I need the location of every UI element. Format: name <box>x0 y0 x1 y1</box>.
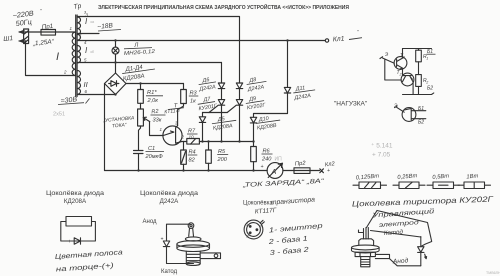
bridge rectifier Д1-Д4 diamond <box>105 73 127 95</box>
power symbol 0,5Вт <box>427 184 460 186</box>
diode КД208А package diode symbol <box>74 238 80 244</box>
resistor R1* <box>140 84 142 90</box>
svg-text:"НАГУЗКА": "НАГУЗКА" <box>334 101 368 108</box>
potentiometer R2 <box>138 109 144 126</box>
svg-text:200: 200 <box>217 157 228 163</box>
svg-text:2: 2 <box>63 70 67 75</box>
resistor R4 <box>183 142 185 151</box>
wire box bottom and corner <box>390 259 421 266</box>
svg-text:10: 10 <box>189 134 195 139</box>
plug hatch block <box>24 29 29 44</box>
svg-text:1к: 1к <box>190 99 196 105</box>
thyristor Д9 <box>227 100 243 142</box>
transistor Т КТ117Г unijunction <box>163 126 182 145</box>
КТ117 pin numerals <box>246 223 263 239</box>
svg-text:Катод: Катод <box>384 229 404 237</box>
wire mains top lead <box>19 31 76 33</box>
diode Д6 <box>218 83 224 100</box>
terminal Кл2 cross <box>310 169 323 173</box>
package КУ202Г stud <box>361 257 370 267</box>
diode Д8 <box>236 83 242 100</box>
wire gates junction line <box>203 112 228 114</box>
wire branch1 down <box>221 63 223 84</box>
node Э terminal dash (equiv circuit) <box>380 57 383 59</box>
package Д242А collar <box>185 237 201 241</box>
package Д242А stud <box>186 251 200 263</box>
diode Д11 <box>284 41 290 114</box>
svg-text:+: + <box>161 237 164 243</box>
label Д5 КД208А <box>211 115 237 132</box>
svg-text:КД208А: КД208А <box>64 198 87 205</box>
svg-text:Б2: Б2 <box>427 86 433 92</box>
diode КД208А package leads <box>61 222 96 242</box>
wire ammeter to fuse <box>283 170 294 172</box>
winding pin numbers <box>63 13 89 95</box>
resistor R6 <box>253 142 255 147</box>
svg-text:R1*: R1* <box>147 90 157 96</box>
wire bridge minus down <box>104 84 106 171</box>
plug Ш1 arrows <box>19 30 26 42</box>
diode КД208А package body <box>66 217 92 227</box>
label Д7 КУ201Г <box>197 95 219 112</box>
wire T1 collector up <box>402 49 404 58</box>
diode symbol Д242А pinout <box>163 241 169 247</box>
svg-text:ТМВ6ЛН: ТМВ6ЛН <box>486 271 500 275</box>
wire winding II bottom to bridge <box>78 94 116 96</box>
svg-text:Э: Э <box>394 104 398 110</box>
svg-text:Цоколёвка диода: Цоколёвка диода <box>140 190 199 197</box>
svg-text:Анод: Анод <box>392 256 409 265</box>
junction dots <box>114 39 116 41</box>
wire anode Д242А pinout <box>167 224 194 263</box>
svg-text:+: + <box>68 239 71 245</box>
svg-text:Б2: Б2 <box>418 120 424 126</box>
svg-text:Кл1: Кл1 <box>333 35 345 43</box>
thyristor Д7 <box>209 100 225 142</box>
svg-text:82: 82 <box>189 158 196 164</box>
ammeter А <box>267 163 283 179</box>
label ~220В 50Гц <box>12 8 42 28</box>
transistor Т2 <box>401 73 414 86</box>
transformer Тр core <box>76 15 77 97</box>
resistor R1 equiv <box>418 49 420 51</box>
package Д242А top terminal <box>188 223 194 229</box>
wire B1 to R7 <box>181 141 187 143</box>
svg-text:Пр2: Пр2 <box>295 161 307 168</box>
svg-text:Д242А: Д242А <box>160 198 180 205</box>
wire Б1 top rail equiv <box>403 48 432 50</box>
label Д1-Д4 КД208А <box>121 63 156 82</box>
svg-text:Цоколёвка: Цоколёвка <box>243 201 273 207</box>
power symbol 0,125Вт <box>353 184 387 186</box>
package КУ202Г leads <box>359 228 369 240</box>
svg-text:+: + <box>261 164 264 170</box>
label Д10 КД208В <box>255 114 281 131</box>
transformer secondary winding middle <box>77 46 80 63</box>
fuse Пр2 <box>294 168 310 174</box>
transformer secondary winding III (top) <box>77 17 80 40</box>
package Д242А tab <box>201 253 221 259</box>
transformer secondary winding II (bottom) <box>77 71 80 95</box>
resistor R5 <box>208 142 210 151</box>
bridge inner diode <box>109 81 119 87</box>
svg-text:2x51: 2x51 <box>53 112 65 118</box>
resistor R3 <box>183 84 185 90</box>
svg-text:ИП: ИП <box>275 157 283 163</box>
power symbol 0,25Вт <box>393 184 425 186</box>
wire box right edge <box>420 237 422 247</box>
wire minus rail to Кл1 <box>78 40 326 42</box>
label Д11 Д242А <box>292 84 316 101</box>
svg-text:1Вт: 1Вт <box>466 173 479 180</box>
svg-text:ЭЛЕКТРИЧЕСКАЯ ПРИНЦИПИАЛЬНАЯ С: ЭЛЕКТРИЧЕСКАЯ ПРИНЦИПИАЛЬНАЯ СХЕМА ЗАРЯД… <box>98 3 349 11</box>
wire cathode lead diagonal <box>371 231 421 238</box>
transistor UJT symbol <box>402 108 416 122</box>
svg-text:Пр1: Пр1 <box>41 23 53 31</box>
resistor R7 <box>187 139 200 145</box>
wire mains bottom return <box>26 41 76 76</box>
transistor КТ117Г package <box>244 220 263 239</box>
svg-text:1: 1 <box>403 56 405 60</box>
svg-text:2: 2 <box>181 135 185 140</box>
labels equiv circuit <box>385 49 434 126</box>
svg-text:1: 1 <box>246 223 248 227</box>
label Д6 Д242А <box>197 76 217 93</box>
wire wiper to emitter <box>150 122 164 136</box>
capacitor C1 <box>134 151 144 171</box>
wire pot to C1 <box>139 126 141 150</box>
fuse Пр1 <box>41 30 56 36</box>
svg-text:А: А <box>271 167 277 176</box>
wire T1 emitter to T2 <box>403 68 404 75</box>
wire top rail from winding III <box>78 17 240 84</box>
svg-text:Б1: Б1 <box>418 106 424 112</box>
svg-text:Анод: Анод <box>143 219 158 225</box>
package КУ202Г anode tab <box>375 254 389 258</box>
power labels <box>356 173 479 181</box>
svg-text:2: 2 <box>399 73 402 77</box>
lamp chain vertical <box>115 41 117 74</box>
svg-text:Катод: Катод <box>161 269 178 275</box>
svg-text:20мкФ: 20мкФ <box>145 154 164 160</box>
callout polygon КУ202Г <box>377 211 432 247</box>
label Д8 Д242А <box>245 75 268 93</box>
package КУ202Г top cap <box>359 239 374 246</box>
diode Д5 <box>199 113 205 142</box>
svg-text:I: I <box>56 51 59 63</box>
wire plus rail <box>126 83 184 85</box>
package КУ202Г nut <box>355 252 375 256</box>
svg-text:Ш1: Ш1 <box>3 35 14 43</box>
svg-text:зб: зб <box>90 49 95 54</box>
svg-text:2,0к: 2,0к <box>147 98 159 104</box>
wire gate lead to callout <box>367 211 378 228</box>
power symbol 1Вт <box>458 184 491 186</box>
package Д242А flange <box>177 241 210 248</box>
КТ117 pins <box>249 225 252 228</box>
wire tap 7 <box>78 33 100 35</box>
wire emitter lead equiv <box>383 58 402 80</box>
package КУ202Г flange <box>352 245 380 250</box>
svg-text:240: 240 <box>261 157 272 163</box>
thyristor symbol КУ202Г pinout <box>418 247 424 266</box>
pin numbers UJT <box>160 121 185 140</box>
svg-text:33к: 33к <box>153 118 162 124</box>
resistor R2 equiv <box>416 75 422 87</box>
diode Д10 chain <box>250 114 287 142</box>
wire R1-R2 link <box>418 62 420 75</box>
wire gate line <box>199 141 253 143</box>
terminal Кл1 <box>325 39 328 42</box>
svg-text:Цоколёвка диода: Цоколёвка диода <box>46 190 105 197</box>
svg-text:Тр: Тр <box>73 3 82 11</box>
wire Б2 bottom rail equiv <box>403 93 434 95</box>
lamp Л МН26-0,12 <box>112 47 119 54</box>
transformer primary winding I <box>72 32 75 75</box>
svg-text:II: II <box>84 80 88 89</box>
svg-text:+: + <box>327 168 330 174</box>
transistor Т1 <box>394 57 407 70</box>
svg-text:2: 2 <box>425 81 428 85</box>
label Д9 КУ202Г <box>245 94 267 111</box>
svg-text:⁺ 5.141: ⁺ 5.141 <box>371 143 393 150</box>
arrow mark <box>425 254 427 259</box>
wire bottom common rail <box>105 170 268 172</box>
svg-text:1: 1 <box>426 57 428 61</box>
svg-text:+ 7.05: + 7.05 <box>372 152 391 159</box>
wire mid rail y63 <box>78 62 222 64</box>
